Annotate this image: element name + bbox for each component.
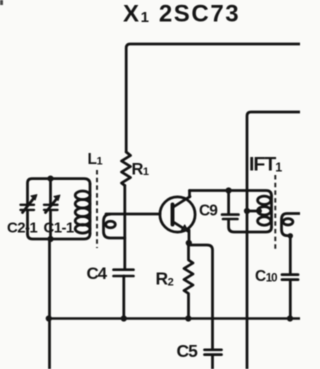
wire C10 to bus	[289, 280, 292, 318]
wire ground bus	[48, 317, 301, 320]
wire tank bottom to bottom edge	[48, 240, 51, 369]
capacitor C5	[205, 350, 222, 355]
dashed core line of L1	[96, 170, 98, 248]
node: secondary to C10 corner	[288, 233, 293, 238]
capacitor C1 variable	[49, 179, 52, 204]
node: bus left junction	[46, 315, 52, 321]
node: IFT tap at coil	[256, 208, 262, 214]
node: tank bottom junction	[47, 236, 53, 242]
node: C4 at bus	[121, 315, 127, 321]
corner scan artifact	[0, 0, 3, 5]
node: tank top junction	[47, 176, 53, 182]
svg-text:X1 2SC73: X1 2SC73	[123, 1, 240, 28]
svg-text:C9: C9	[199, 203, 218, 220]
wire tank bottom	[28, 234, 91, 240]
resistor R1	[122, 152, 131, 186]
node: C10 at bus	[287, 315, 293, 321]
transistor X1	[160, 197, 195, 232]
resistor R2	[184, 243, 193, 318]
svg-text:C4: C4	[87, 264, 108, 283]
capacitor C10	[282, 275, 298, 280]
dashed core line of IFT1	[274, 175, 276, 251]
wire C5 to bottom edge	[211, 355, 214, 369]
IFT1 primary winding	[270, 196, 273, 227]
wire tank top	[28, 179, 91, 204]
wire collector	[190, 191, 272, 197]
node: IFT tap on B+ line	[244, 208, 250, 214]
svg-text:C2-1: C2-1	[7, 220, 37, 237]
node: collector / C9 junction	[226, 187, 232, 193]
IFT1 secondary winding	[282, 214, 301, 236]
node: R2 at bus	[185, 315, 191, 321]
coupling winding of L1 (base coil)	[104, 214, 125, 238]
wire top feed: vertical from R1 up, horizontal to right edge	[126, 44, 300, 152]
wire B+ right: corner at top right	[247, 112, 300, 369]
capacitor C2 variable	[21, 205, 35, 210]
capacitor C9	[227, 191, 230, 215]
wire C4 to bus	[122, 276, 125, 318]
wire emitter to C5 branch	[189, 245, 213, 349]
svg-text:C1-1: C1-1	[44, 220, 74, 237]
inductor L1 primary winding	[89, 184, 92, 234]
capacitor C4	[114, 270, 134, 276]
svg-text:C5: C5	[177, 341, 199, 361]
wire center tap	[247, 210, 259, 213]
wire emitter down	[188, 230, 191, 243]
node: emitter junction	[186, 240, 192, 246]
wire base	[106, 213, 160, 216]
wire R1 bottom to C4	[123, 186, 126, 270]
wire secondary to C10	[289, 236, 292, 274]
